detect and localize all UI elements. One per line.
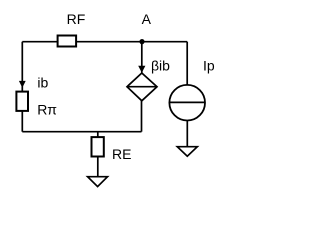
wire left vertical with current arrow ib: [19, 42, 49, 92]
wire below diamond to bottom rail: [141, 101, 143, 132]
svg-text:Rπ: Rπ: [37, 101, 57, 117]
svg-text:RF: RF: [67, 11, 86, 27]
wire below RE: [97, 157, 99, 177]
ground below Ip: [177, 147, 197, 157]
node A: [139, 11, 151, 44]
wire top-right vertical: [186, 42, 188, 85]
wire bottom rail: [22, 131, 141, 133]
wire node A to top-right corner: [142, 41, 187, 43]
wire below Rπ: [21, 111, 23, 132]
svg-text:βib: βib: [151, 57, 170, 73]
wire RE stub: [97, 132, 99, 137]
svg-text:ib: ib: [37, 75, 48, 91]
svg-text:RE: RE: [112, 146, 131, 162]
svg-text:A: A: [142, 11, 152, 27]
current source Ip (circle): [169, 57, 214, 120]
ground below RE: [88, 177, 108, 187]
wire node A down to dependent source with arrow: [138, 42, 145, 73]
wire RF to node A: [76, 41, 142, 43]
wire below Ip circle: [186, 121, 188, 147]
dependent current source βib (diamond): [127, 57, 170, 100]
wire top-left horizontal segment: [22, 41, 58, 43]
svg-text:Ip: Ip: [203, 57, 215, 73]
resistor RF: [58, 11, 86, 46]
resistor RE: [92, 137, 132, 162]
resistor Rπ: [16, 92, 57, 118]
